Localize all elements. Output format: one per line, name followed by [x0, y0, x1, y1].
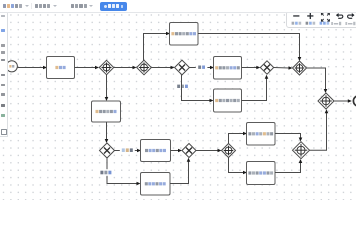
gateway G9 (parallel event)	[222, 144, 236, 158]
gateway G1 (parallel event)	[99, 60, 113, 74]
palette tool 1	[1, 15, 5, 18]
gateway G6 (parallel event)	[318, 93, 334, 109]
gateway G3 (exclusive)	[175, 60, 190, 75]
wire G7 down to task7	[97, 158, 140, 185]
gateway G5 (parallel event)	[293, 61, 307, 75]
task4 box	[214, 57, 242, 80]
wire G8 to gateway G9	[196, 149, 222, 153]
toolbar redo label	[345, 22, 355, 25]
canvas dot grid	[0, 12, 356, 200]
wire G6 to end event	[334, 99, 352, 103]
toolbar undo icon	[336, 13, 343, 18]
toolbar redo icon	[348, 13, 355, 18]
wire G9 up to task8	[229, 132, 248, 144]
menu item 3	[71, 4, 93, 8]
gateway G7 (exclusive)	[100, 143, 115, 158]
wire task1 to gateway G1	[75, 66, 100, 70]
palette tool 6	[1, 74, 5, 77]
task1 box	[47, 57, 75, 79]
toolbar fit icon	[321, 13, 329, 21]
task6 box	[141, 140, 171, 162]
wire G3 to task4	[189, 64, 214, 71]
toolbar fit label	[320, 22, 330, 25]
palette tool 4	[1, 51, 5, 54]
wire G7 to task6	[115, 147, 142, 154]
wire task9 up to G10	[275, 159, 302, 173]
wire task4 to gateway G4	[242, 66, 261, 70]
wire G4 to gateway G5	[274, 66, 293, 70]
top menu bar	[0, 0, 356, 13]
wire task3 to G5	[198, 34, 301, 62]
wire task7 up to G8	[170, 158, 190, 184]
wire G10 up to G6	[310, 109, 329, 150]
wire G5 to gateway G6	[307, 68, 328, 93]
start event	[6, 61, 17, 72]
palette tool 10	[1, 114, 5, 117]
gateway G10 (parallel event)	[293, 142, 310, 159]
menu separator	[31, 3, 32, 10]
end event	[353, 96, 356, 106]
task9 box	[247, 162, 276, 185]
wire G3 down to task5	[182, 75, 214, 102]
toolbar zoom-in icon	[307, 13, 313, 19]
palette tool 9	[1, 104, 5, 107]
wire G1 to gateway G2	[114, 66, 137, 70]
palette collapse handle	[1, 129, 7, 135]
gateway G4 (exclusive)	[260, 61, 273, 74]
wire task6 to gateway G8	[171, 149, 183, 153]
gateway G2 (parallel event)	[137, 60, 152, 75]
wire task8 to gateway G10	[275, 134, 302, 142]
task5 box	[214, 89, 242, 112]
task8 box	[247, 123, 276, 146]
palette tool 2	[1, 29, 5, 32]
label fail under G3	[176, 84, 188, 89]
task2 box	[92, 101, 121, 122]
wire task2 down to gateway G7	[105, 122, 109, 143]
wire G2 to gateway G3	[151, 66, 174, 70]
toolbar zoom-out label	[292, 22, 302, 25]
palette tool 8	[1, 93, 5, 96]
palette tool 7	[1, 84, 5, 87]
palette tool 5	[1, 59, 5, 62]
wire start to task1	[18, 66, 47, 70]
wire G9 down to task9	[229, 158, 248, 175]
floating zoom toolbar	[286, 11, 356, 29]
left shape palette	[0, 12, 8, 137]
wire G2 up to task3	[144, 32, 171, 61]
wire G1 down to task2	[105, 75, 109, 101]
menu item 1	[3, 4, 30, 8]
gateway G8 (exclusive)	[182, 144, 196, 158]
palette tool 3	[1, 44, 5, 47]
wire task5 to G4	[242, 75, 269, 101]
toolbar zoom-in label	[306, 22, 316, 25]
task7 box	[141, 173, 171, 196]
toolbar zoom-out icon	[293, 15, 299, 16]
menu item 2	[35, 4, 57, 8]
toolbar undo label	[331, 22, 341, 25]
primary button	[100, 2, 127, 11]
task3 box	[170, 23, 199, 46]
